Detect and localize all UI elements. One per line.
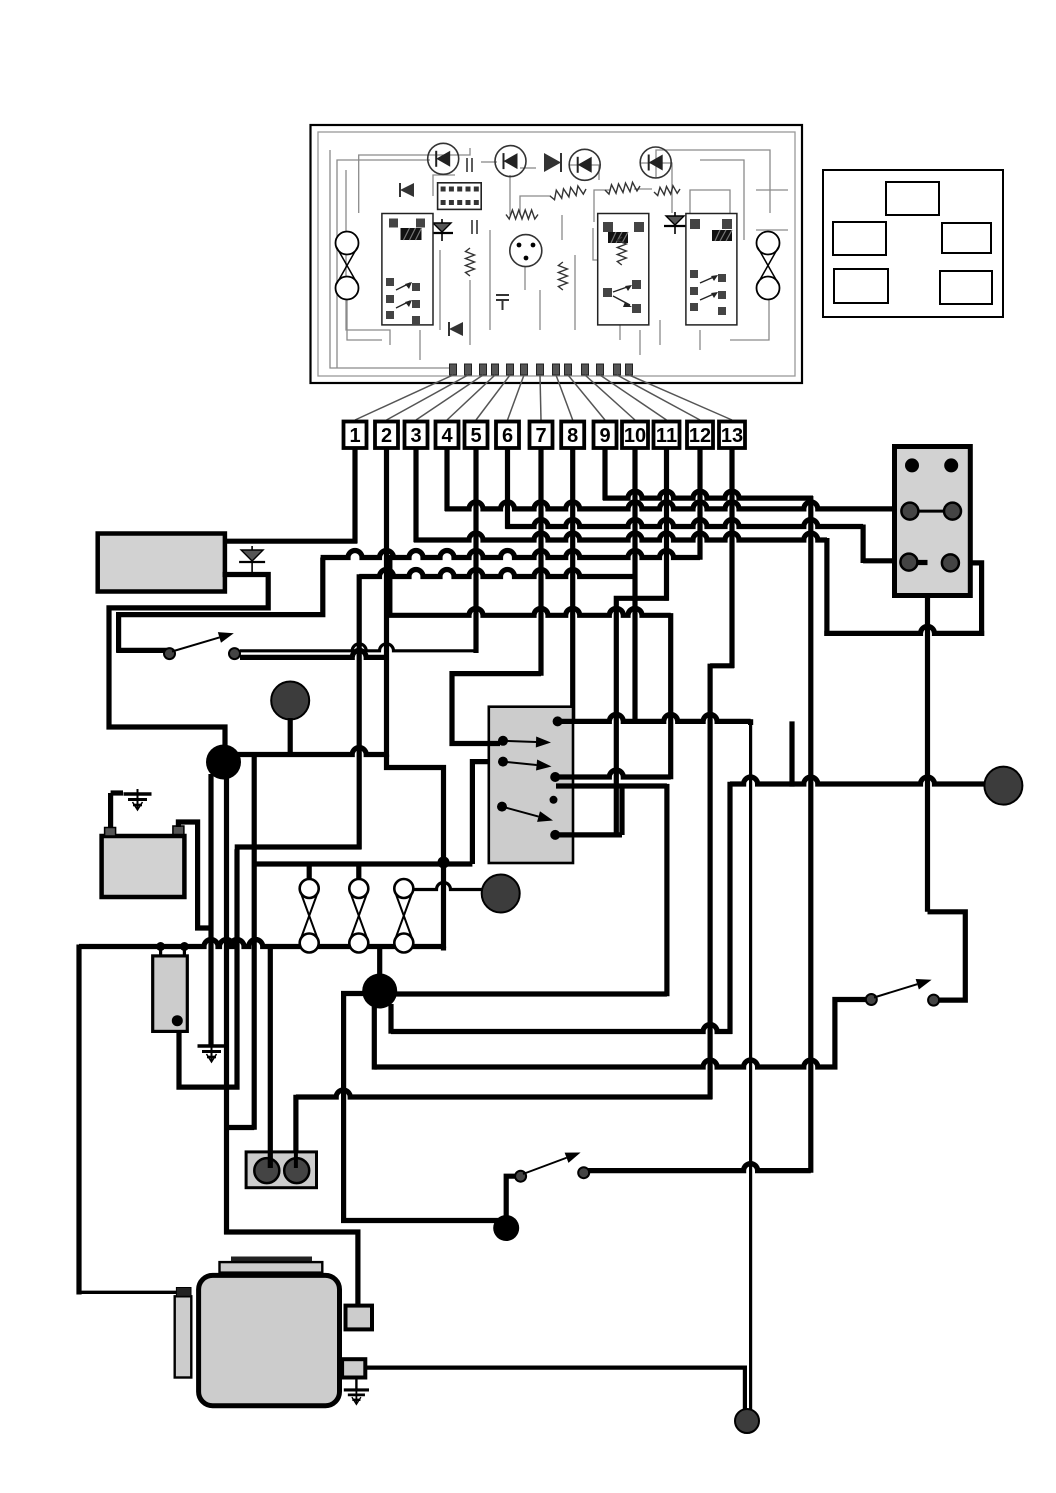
svg-text:13: 13 [721, 425, 743, 447]
bus dot E1 [156, 942, 165, 951]
relay top pin wire [558, 714, 751, 721]
switch SW2 blade [874, 984, 917, 997]
flasher unit [246, 1152, 316, 1188]
battery terminal 1 [105, 828, 116, 837]
switch SW3 wire to bus [588, 1164, 811, 1171]
sender loop wire [179, 849, 237, 1087]
terminal dot D [482, 875, 520, 913]
battery positive wire [178, 822, 211, 928]
CN pin 4 [944, 503, 961, 520]
connector pins 1-13 (numbered boxes) [344, 422, 367, 449]
relay drop wire [749, 723, 752, 1419]
diode D4 (circled) [640, 147, 671, 178]
svg-text:12: 12 [689, 425, 711, 447]
lamp bottom bus [441, 947, 446, 949]
trigger circle U1 [510, 235, 542, 267]
relay R blade 3 [502, 807, 539, 817]
battery terminal 2 [173, 826, 184, 835]
resistor R2 [550, 186, 586, 200]
resistor R1 [506, 210, 538, 219]
switch SW2 pivot [866, 994, 877, 1005]
wire pin1 to module [223, 539, 358, 544]
junction dot A [206, 745, 241, 780]
resistor R3 [605, 182, 640, 194]
dot wire to terminal [730, 777, 986, 784]
resistor R5 [466, 248, 475, 276]
capacitor C2 [472, 220, 477, 234]
lamp2 stem [356, 864, 361, 880]
lamp feed jog [387, 755, 444, 951]
dot F drop 1 [388, 1004, 393, 1034]
wire pin8 down [570, 448, 575, 724]
lamp LP2 (PCB right) [757, 232, 780, 255]
svg-text:6: 6 [502, 425, 513, 447]
relay K1 (PCB left) [382, 214, 433, 325]
switch SW2 feed [835, 1000, 866, 1068]
wire pin9 down [602, 448, 607, 500]
wire pin11 jog [616, 598, 668, 837]
bus second row [359, 570, 637, 577]
bus switch arm jog [119, 558, 323, 653]
resistor R4 [654, 186, 680, 196]
regulator lower wire [109, 575, 268, 749]
junction dot F [362, 974, 397, 1009]
bus to pin12 [321, 551, 700, 558]
switch SW1 pivot [164, 648, 175, 659]
CN pin5 wire [909, 560, 928, 565]
sender unit [153, 956, 188, 1032]
bus from pin9 [603, 491, 813, 498]
lamp1 stem [307, 864, 312, 880]
diode D9 (gray) [674, 212, 676, 234]
lamp L1 [300, 879, 319, 898]
relay R pin g [550, 830, 560, 840]
svg-text:7: 7 [535, 425, 546, 447]
switch SW3 pivot [515, 1171, 526, 1182]
ground G1 link [111, 790, 123, 795]
CN pin 5 [900, 554, 917, 571]
bus row2 drop [357, 574, 362, 849]
svg-text:4: 4 [441, 425, 453, 447]
wire pin2b branch [388, 555, 393, 615]
ground G3 [344, 1385, 369, 1404]
diode D1 (circled) [428, 143, 459, 174]
terminal dot B [271, 682, 309, 720]
bus dot E2 [180, 942, 189, 951]
bus pin2 to pin11 [388, 608, 671, 615]
relay bottom pin wire [555, 832, 622, 837]
switch SW3 contact [578, 1167, 589, 1178]
diode D6 [400, 183, 414, 197]
relay K3 (PCB right) [686, 214, 737, 325]
svg-text:2: 2 [381, 425, 392, 447]
wire pin1 down [352, 448, 357, 543]
bus from pin4 to connector [445, 502, 908, 509]
relay lower link [619, 786, 624, 835]
svg-text:5: 5 [470, 425, 481, 447]
wire pin7 arm [452, 674, 541, 744]
lamp top bus [253, 861, 472, 866]
dot F left wire [344, 994, 504, 1221]
svg-text:11: 11 [656, 425, 677, 447]
terminal dot I [735, 1409, 759, 1433]
dot B stem [288, 718, 293, 757]
CN pin 2 [944, 458, 958, 472]
PCB pads P1-P13 [450, 364, 457, 375]
lamp3 to sensor dot [413, 883, 484, 890]
resistor R6 [558, 262, 567, 290]
starter motor body [199, 1275, 340, 1405]
left rail down [76, 945, 81, 1295]
relay R pin c [498, 757, 508, 767]
bus from pin6 [506, 520, 864, 527]
wire pin2 down [384, 448, 389, 757]
switch SW3 pivot wire [506, 1176, 518, 1219]
comp2 right stem [293, 1095, 298, 1152]
motor terminal 2 [342, 1359, 365, 1377]
diode D10 [251, 546, 253, 575]
svg-text:3: 3 [410, 425, 421, 447]
switch SW2 contact [928, 995, 939, 1006]
relay pin d wire [555, 770, 671, 777]
bus pin9 drop [808, 496, 813, 1173]
lamp bus corner drop [252, 757, 257, 1130]
relay unit R (gray box) [489, 707, 573, 863]
node A right wire [235, 748, 389, 755]
CN link [910, 510, 953, 513]
solenoid cap [176, 1288, 191, 1297]
switch SW1 thick wire [240, 650, 387, 657]
dot F drop 2 [372, 1004, 377, 1070]
ground G1 [124, 789, 152, 810]
relay pin wire from lamp bus [472, 762, 500, 864]
relay R blade 1 [503, 741, 536, 742]
CN pin 6 [942, 554, 959, 571]
ground G2 [198, 1041, 226, 1062]
dot F right wire [396, 991, 667, 996]
connector J2 (on PCB) [438, 183, 482, 210]
legend box [823, 170, 1003, 317]
wire pin2-11 drop [668, 613, 673, 779]
node A drop [208, 774, 213, 1047]
wire pin11 down [664, 448, 669, 601]
relay R pin f [497, 802, 507, 812]
bus pin3 loop [824, 538, 829, 636]
motor terminal 1 [346, 1306, 373, 1330]
wire pin7 down [538, 448, 543, 676]
sender drop to motor [227, 1125, 254, 1130]
capacitor C1 [467, 158, 472, 172]
relay R pin d [550, 772, 560, 782]
switch SW1 blade [172, 637, 219, 651]
PCB unit outline and traces [311, 125, 803, 383]
motor feed wire [224, 774, 229, 1234]
diode D7 [449, 322, 463, 336]
junction dot G [493, 1215, 519, 1241]
row2 link wire [235, 844, 362, 849]
svg-text:9: 9 [599, 425, 610, 447]
solenoid strip [175, 1296, 192, 1377]
motor cap [220, 1262, 323, 1273]
relay R pin a [553, 716, 563, 726]
CN pin 1 [905, 458, 919, 472]
bus pin6 drop [860, 525, 865, 564]
switch SW1 pivot wire [116, 648, 167, 653]
relay R blade 2 [503, 762, 537, 765]
relay wire branch down [789, 721, 794, 786]
switch SW3 blade [523, 1158, 567, 1174]
lamp LP1 (PCB left) [336, 232, 359, 255]
dot F stem up [377, 948, 382, 975]
relay R pin b [498, 736, 508, 746]
wire pin13 down [729, 448, 734, 668]
switch SW1 contact [229, 648, 240, 659]
regulator module [98, 534, 225, 592]
svg-text:8: 8 [567, 425, 578, 447]
flasher left stem [268, 948, 273, 1168]
sender inner dot [172, 1015, 183, 1026]
diode D8 (gray) [441, 219, 443, 241]
switch SW1 thin wire to pin5 [240, 644, 478, 651]
switch SW2 wire [928, 912, 966, 1000]
CN pin 3 [901, 503, 918, 520]
connector CN (gray) [895, 447, 971, 596]
motor output wire [365, 1365, 747, 1369]
dot wire corner drop [727, 782, 732, 1034]
wire pin4 down [444, 448, 449, 511]
flasher circle 1 [254, 1158, 279, 1183]
wire pin5 down [473, 448, 478, 653]
wire pin3 down [413, 448, 418, 542]
capacitor C3 [496, 295, 509, 310]
battery ground wire [108, 793, 113, 833]
battery B1 [102, 836, 185, 897]
wire pin6 down [505, 448, 510, 529]
sender stems [159, 947, 162, 956]
fan wires pads to connector pins [355, 375, 453, 420]
lamp L2 [349, 879, 368, 898]
diode D2 (circled) [495, 146, 526, 177]
motor cap bar [231, 1257, 312, 1263]
lamp L3 [394, 879, 413, 898]
relay R pin e [550, 796, 558, 804]
diode D3 (circled) [569, 149, 600, 180]
bus pin6 arm [863, 558, 908, 563]
bus from pin3 [414, 533, 827, 540]
svg-text:1: 1 [349, 425, 360, 447]
wire pin10 down [632, 448, 637, 724]
resistor R7 [617, 237, 626, 265]
solenoid feed wire [79, 1291, 176, 1294]
relay K2 (PCB middle) [598, 214, 649, 325]
svg-text:10: 10 [624, 425, 646, 447]
terminal dot H [984, 767, 1022, 805]
flasher circle 2 [284, 1158, 309, 1183]
junction dot C [438, 856, 450, 868]
wire pin12 down [697, 448, 702, 560]
diode D5 [544, 153, 561, 172]
connector drop [925, 560, 930, 912]
